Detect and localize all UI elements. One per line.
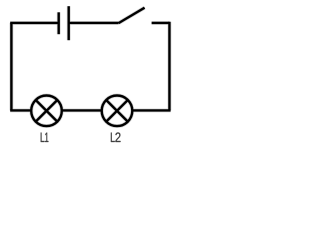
lamp L2 circle (102, 96, 133, 127)
wire switch to top-right corner (soft halo) (152, 21, 170, 25)
label L1 glyph 1 (45, 133, 48, 142)
wire battery to switch (69, 22, 119, 24)
battery B1 negative short plate (soft halo) (57, 12, 61, 34)
wire lamp L2 to bottom-right corner (132, 109, 171, 111)
lamp L1 cross stroke 1 (36, 100, 58, 122)
lamp L2 cross stroke 1 (106, 100, 128, 122)
lamp L1 circle (31, 96, 62, 127)
wire right vertical (soft halo) (167, 22, 171, 111)
lamp L2 cross stroke 2 (soft halo) (106, 100, 128, 122)
battery B1 negative short plate (58, 12, 60, 34)
lamp L1 cross stroke 2 (soft halo) (36, 100, 58, 122)
wire switch to top-right corner (152, 22, 170, 24)
lamp L2 cross stroke 1 (soft halo) (106, 100, 128, 122)
label L1 glyph L (41, 133, 45, 142)
wire battery to switch (soft halo) (69, 21, 119, 25)
wire left vertical (10, 23, 12, 111)
lamp L1 cross stroke 2 (36, 100, 58, 122)
wire bottom-left to lamp L1 (10, 109, 31, 111)
lamp L2 circle (soft halo) (102, 96, 133, 127)
wire lamp L2 to bottom-right corner (soft halo) (132, 108, 171, 112)
wire left vertical (soft halo) (9, 23, 13, 111)
label L2 glyph L (111, 133, 115, 142)
label L2 glyph 2 (115, 132, 120, 142)
battery B1 positive long plate (67, 6, 69, 40)
wire bottom-left to lamp L1 (soft halo) (10, 108, 31, 112)
lamp L2 cross stroke 2 (106, 100, 128, 122)
wire right vertical (168, 22, 170, 111)
switch S1 open arm (119, 8, 145, 23)
switch S1 open arm (soft halo) (119, 8, 145, 23)
battery B1 positive long plate (soft halo) (67, 6, 71, 40)
lamp L1 cross stroke 1 (soft halo) (36, 100, 58, 122)
wire top-left to battery (soft halo) (10, 21, 59, 25)
wire top-left to battery (10, 22, 59, 24)
lamp L1 circle (soft halo) (31, 96, 62, 127)
wire lamp L1 to lamp L2 (62, 109, 102, 111)
wire lamp L1 to lamp L2 (soft halo) (62, 108, 102, 112)
